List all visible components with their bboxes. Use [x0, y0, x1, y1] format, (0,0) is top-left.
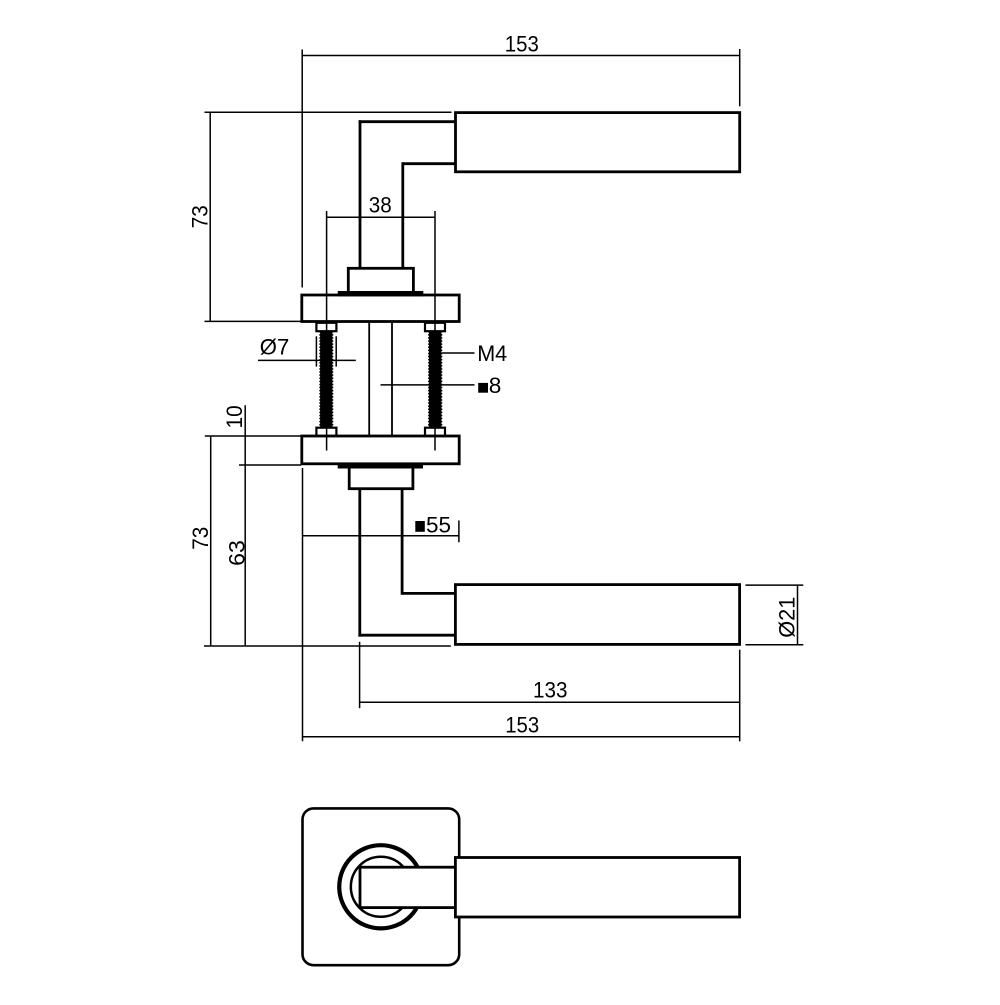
bolt centerline right	[434, 211, 436, 451]
neck right line (side view)	[401, 489, 404, 595]
nut above rose2 left	[316, 428, 336, 436]
neck outer bend line (side view)	[358, 634, 455, 637]
rose ring inner circle	[351, 857, 411, 917]
dim 73 bottom: dimension line	[210, 436, 212, 646]
dim 153 top: right extension line	[739, 49, 741, 106]
lever grip (front view)	[455, 858, 739, 918]
spindle right line	[391, 322, 393, 437]
dim Ø21: top tick	[745, 584, 803, 586]
dim 38: dimension line	[327, 216, 435, 218]
dim 73 top: top tick line	[205, 111, 452, 113]
svg-text:73: 73	[187, 205, 212, 228]
dim square-55: dimension line	[303, 535, 459, 537]
neck inner bend line (top view)	[403, 162, 456, 165]
extension line rose2 left down	[302, 468, 304, 741]
nut below rose1 left	[316, 323, 336, 331]
bolt centerline left	[326, 211, 328, 451]
lever grip (side view)	[455, 585, 739, 645]
nut below rose1 right	[425, 323, 445, 331]
svg-text:63: 63	[225, 540, 250, 566]
svg-text:55: 55	[426, 512, 451, 537]
collar on rose 2 (side view)	[349, 466, 413, 489]
lever grip (top view)	[456, 113, 740, 172]
dim Ø7: right tick	[335, 336, 337, 366]
svg-text:M4: M4	[477, 341, 507, 366]
neck outer bend line (top view)	[359, 120, 456, 123]
tick line at rose2 bottom	[239, 464, 301, 466]
rose ring outer circle	[339, 845, 422, 928]
extension line grip right down	[739, 650, 741, 742]
dim 153 top: dimension line	[302, 55, 740, 57]
svg-text:73: 73	[188, 527, 213, 550]
neck right line (top view)	[401, 162, 404, 268]
label square-8 leader	[381, 384, 475, 386]
threaded rod right thread serration	[428, 331, 430, 428]
svg-text:153: 153	[505, 713, 539, 738]
chamfer strip rose 2	[338, 463, 423, 468]
collar on rose 1 (top view)	[348, 268, 413, 293]
square rose (front)	[303, 808, 460, 965]
rose 1 (side band)	[302, 295, 459, 322]
dim 10/63 shared dimension line	[244, 405, 246, 646]
svg-text:133: 133	[533, 678, 568, 703]
svg-text:38: 38	[369, 192, 392, 217]
svg-text:Ø7: Ø7	[260, 335, 290, 360]
tick line at grip bottom	[204, 645, 451, 647]
dim 73 top: bottom tick line	[205, 320, 301, 322]
label square-8 square symbol	[478, 383, 488, 393]
svg-text:Ø21: Ø21	[774, 597, 799, 638]
dim Ø7: leader line	[258, 359, 356, 361]
svg-text:8: 8	[489, 373, 502, 398]
label M4 leader	[442, 352, 475, 354]
extension line neck left down	[359, 642, 361, 708]
dim 133: dimension line	[360, 701, 740, 703]
tick line at rose2 top	[205, 435, 301, 437]
dim square-55: right tick	[458, 521, 460, 543]
threaded rod left	[320, 331, 332, 428]
nut above rose2 right	[425, 428, 445, 436]
dim 153 bottom: dimension line	[303, 736, 740, 738]
threaded rod right	[429, 331, 442, 428]
dim 73 top: dimension line	[209, 112, 211, 321]
dim 153 top: left extension line	[301, 50, 303, 288]
dim square-55: square symbol	[415, 521, 425, 532]
neck (front view)	[360, 867, 455, 907]
dim Ø21: bottom tick	[745, 644, 803, 646]
svg-text:10: 10	[222, 405, 247, 428]
chamfer strip rose 1	[338, 291, 424, 296]
dim Ø21: dimension line	[797, 585, 799, 646]
rose 2 (side band)	[302, 436, 459, 464]
neck inner bend line (side view)	[402, 592, 455, 595]
threaded rod left thread serration	[319, 331, 321, 428]
neck left line (top view)	[359, 120, 362, 268]
neck left line (side view)	[358, 489, 361, 637]
svg-text:153: 153	[505, 31, 539, 56]
dim Ø7: left tick	[315, 336, 317, 366]
spindle left line	[368, 322, 370, 437]
